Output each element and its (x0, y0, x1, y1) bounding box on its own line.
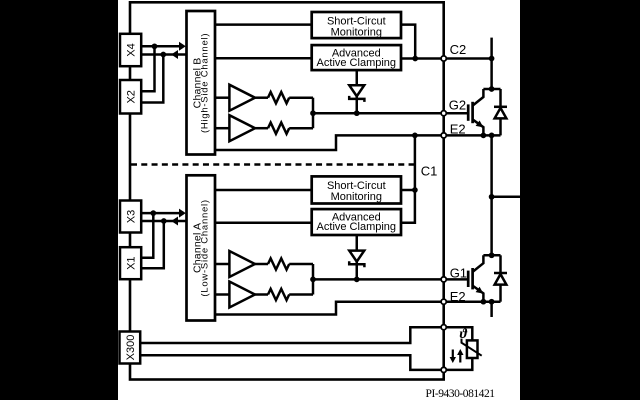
svg-text:(High-Side Channel): (High-Side Channel) (200, 33, 211, 133)
svg-text:X4: X4 (126, 43, 138, 56)
junction zener B / G2 wire (354, 110, 360, 116)
junction C2 rail (489, 56, 495, 62)
wire Channel A emitter return to E2 (215, 302, 441, 315)
thermistor loop wire (447, 327, 473, 340)
wire X3 bus down to X1 upper (141, 213, 153, 258)
DC+ rail stub (490, 38, 493, 59)
clamp zener A anode wire (356, 235, 359, 251)
buffer amplifier A1 (215, 251, 255, 277)
wire Channel A to Advanced Active Clamping A (215, 222, 312, 225)
arrowhead toward X4 (171, 50, 178, 59)
label G1 (450, 265, 467, 280)
wire resistor join B (312, 98, 315, 129)
clamp zener diode A (349, 251, 364, 280)
svg-text:X1: X1 (126, 256, 138, 269)
connector X1 (120, 247, 141, 279)
svg-text:Monitoring: Monitoring (331, 191, 382, 203)
wire X4 to Channel B input (141, 45, 184, 48)
svg-text:X2: X2 (126, 90, 138, 103)
wire collector node top IGBT (483, 88, 500, 91)
junction X4 lower (160, 52, 166, 58)
junction gate node A (310, 277, 316, 283)
arrowhead toward X3 (171, 217, 178, 226)
terminal G1 (441, 277, 446, 282)
wire Channel B emitter return to E2 (215, 135, 441, 150)
wire resistor join A (312, 264, 315, 295)
buffer amplifier A2 (215, 282, 255, 308)
junction X3 upper (150, 210, 156, 216)
svg-text:Active Clamping: Active Clamping (317, 221, 396, 233)
buffer amplifier B2 (215, 115, 255, 141)
terminal E2 low (441, 299, 446, 304)
wire Channel B to X4 (return) (141, 53, 186, 56)
connector X3 (120, 201, 141, 233)
svg-text:G2: G2 (449, 97, 466, 112)
svg-text:X300: X300 (125, 335, 137, 361)
wire phase output (492, 196, 520, 199)
wire Channel A to X3 (return) (141, 220, 186, 223)
wire X3 to Channel A input (141, 212, 184, 215)
connector X4 (120, 34, 141, 66)
wire collector node bottom IGBT (483, 254, 500, 257)
clamp zener diode B (349, 85, 364, 113)
IGBT top (high side) (468, 89, 483, 135)
junction IGBT2 collector node (489, 86, 495, 92)
junction phase node (489, 194, 495, 200)
freewheel diode bottom (494, 255, 507, 301)
gate resistor B2 (255, 123, 313, 134)
wire terminal E2 to emitter/diode (447, 134, 501, 137)
block Advanced Active Clamping B (312, 45, 401, 70)
svg-text:PI-9430-081421: PI-9430-081421 (426, 388, 496, 400)
wire terminal G1 to IGBT gate (447, 278, 469, 281)
terminal C2 (441, 56, 446, 61)
wire X300 upper to sensor terminal (140, 327, 441, 343)
svg-text:(Low-Side Channel): (Low-Side Channel) (200, 199, 211, 296)
DC- rail stub (490, 302, 493, 317)
buffer amplifier B1 (215, 85, 255, 111)
connector X300 (120, 332, 141, 364)
arrowhead into Channel B (179, 42, 186, 51)
svg-text:E2: E2 (450, 122, 466, 137)
svg-text:X3: X3 (126, 210, 138, 223)
wire SCM A output to C1 net (401, 189, 415, 192)
wire terminal G2 to IGBT gate (447, 112, 469, 115)
label C2 (450, 42, 467, 57)
wire terminal C2 to DC+ rail (447, 57, 492, 60)
gate driver Channel A (Low-Side) (187, 175, 216, 320)
channel separator dashed line (131, 163, 415, 166)
wire gate node A to terminal G1 (313, 278, 441, 281)
gate driver Channel B (High-Side) (187, 11, 216, 155)
junction E2 / C1 sense (412, 133, 418, 139)
thermistor NTC body (462, 339, 482, 358)
svg-text:Monitoring: Monitoring (331, 26, 382, 38)
gate resistor B1 (255, 92, 313, 103)
connector X2 (120, 80, 141, 114)
terminal E2 (441, 133, 446, 138)
junction E2 low rail (489, 299, 495, 305)
wire AAC B to terminal C2 (401, 57, 441, 60)
sense current arrow down (450, 350, 456, 364)
terminal sensor lower (441, 367, 446, 372)
wire terminal E2 low to emitter/diode (447, 300, 501, 303)
label G2 (449, 97, 466, 112)
net C1 sense wire down to Channel A blocks (401, 135, 415, 222)
clamp zener B anode wire (356, 70, 359, 85)
terminal G2 (441, 111, 446, 116)
wire gate node B to terminal G2 (313, 112, 441, 115)
block Advanced Active Clamping A (312, 209, 401, 235)
sense current arrow up (457, 349, 463, 363)
wire X3 bus down to X1 lower (141, 221, 164, 268)
wire rail down to IGBT2 collector (490, 59, 493, 90)
block Short-Circut Monitoring A (312, 176, 401, 203)
wire SCM B output to C2 node (401, 25, 415, 59)
svg-text:C2: C2 (450, 42, 467, 57)
svg-text:E2: E2 (450, 289, 466, 304)
IGBT bottom (low side) (468, 255, 483, 301)
junction emitter E2 low (481, 299, 487, 305)
terminal sensor upper (441, 325, 446, 330)
wire X4 bus down to X2 lower (141, 55, 163, 103)
freewheel diode top (494, 89, 507, 135)
label E2 low (450, 289, 466, 304)
figure number PI-9430-081421 (426, 388, 496, 400)
junction SCM A / C1 (412, 187, 418, 193)
junction IGBT1 collector node (489, 252, 495, 258)
wire Channel B to Advanced Active Clamping B (215, 57, 312, 60)
wire phase rail down (490, 135, 493, 255)
junction emitter E2 (481, 133, 487, 139)
junction X3 lower (161, 218, 167, 224)
gate resistor A1 (255, 258, 313, 269)
junction gate node B (310, 110, 316, 116)
thermistor loop wire lower (447, 358, 473, 370)
wire Channel A to Short-Circut Monitoring A (215, 189, 312, 192)
junction zener A / G1 wire (354, 277, 360, 283)
IC outer boundary box (130, 2, 444, 379)
wire X4 bus down to X2 upper (141, 46, 155, 91)
junction E2 rail (489, 133, 495, 139)
label C1 (421, 164, 438, 179)
svg-text:Active Clamping: Active Clamping (317, 57, 396, 69)
arrowhead into Channel A (179, 209, 186, 218)
svg-text:G1: G1 (450, 265, 467, 280)
wire Channel B to Short-Circut Monitoring B (215, 23, 312, 26)
wire X300 lower to sensor terminal (140, 355, 441, 370)
junction SCM B / C2 (412, 56, 418, 62)
temperature symbol theta (460, 327, 468, 342)
block Short-Circut Monitoring B (312, 12, 401, 38)
svg-text:ϑ: ϑ (460, 327, 468, 342)
svg-text:C1: C1 (421, 164, 438, 179)
gate resistor A2 (255, 289, 313, 300)
junction X4 upper (152, 43, 158, 49)
label E2 (450, 122, 466, 137)
